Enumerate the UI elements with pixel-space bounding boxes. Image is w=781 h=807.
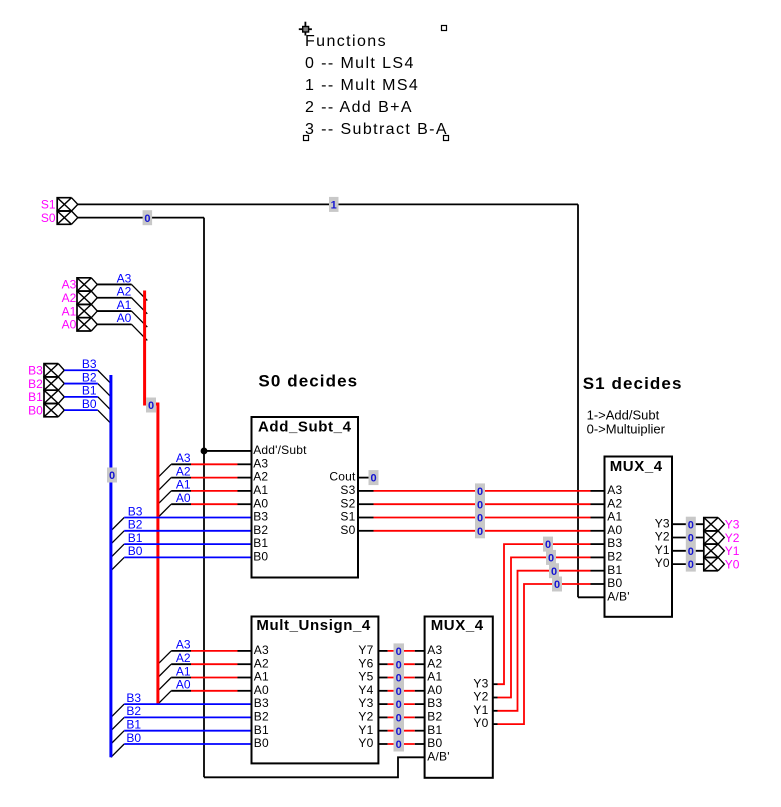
- svg-text:Y0: Y0: [725, 557, 740, 571]
- wire S0 net horizontal: [78, 217, 204, 219]
- output port Y0: [704, 557, 725, 570]
- wire A2 to multiplier: [171, 663, 251, 665]
- value label 0 on muxout B2 wire: [546, 550, 556, 565]
- wires multiplier Y7-Y0 to bottom MUX pins: [378, 651, 424, 744]
- selection handle top-right: [442, 26, 447, 31]
- annotation text Functions list: [305, 33, 448, 138]
- svg-text:S1: S1: [340, 510, 355, 524]
- svg-text:B3: B3: [427, 696, 442, 710]
- svg-text:Y1: Y1: [358, 723, 373, 737]
- svg-text:A1: A1: [176, 478, 191, 492]
- svg-text:B2: B2: [254, 710, 269, 724]
- svg-text:A0: A0: [62, 318, 77, 332]
- svg-text:A0: A0: [117, 311, 132, 325]
- svg-text:Y7: Y7: [358, 643, 373, 657]
- svg-text:Mult_Unsign_4: Mult_Unsign_4: [256, 617, 371, 634]
- svg-text:S0: S0: [41, 211, 56, 225]
- wire S1out to right MUX A1: [358, 517, 605, 519]
- svg-text:A0: A0: [607, 523, 622, 537]
- bus B blue segment: [109, 375, 112, 757]
- bus A red jog connector: [145, 403, 158, 406]
- svg-text:A2: A2: [176, 464, 191, 478]
- svg-text:Cout: Cout: [329, 470, 356, 484]
- value label 0 on muxout B0 wire: [552, 577, 562, 592]
- component Add_Subt_4: [252, 417, 359, 578]
- wire S1 net to A/B' pin of right MUX: [578, 596, 605, 598]
- svg-text:B3: B3: [126, 691, 141, 705]
- wire B3 port to bus: [64, 369, 98, 371]
- svg-text:B1: B1: [607, 563, 622, 577]
- svg-text:B1: B1: [82, 384, 97, 398]
- svg-text:Y3: Y3: [725, 518, 740, 532]
- wire S3 to right MUX A3: [358, 490, 605, 492]
- bus ripper A2 port: [132, 298, 148, 314]
- wire B0 to adder: [124, 556, 251, 558]
- bus ripper A0 adder: [158, 504, 171, 517]
- svg-text:0: 0: [396, 673, 402, 685]
- wire S1 net horizontal: [78, 203, 578, 205]
- bus ripper B1 port: [98, 397, 111, 410]
- crosshair cursor: [299, 22, 312, 36]
- wire A1 to multiplier: [171, 677, 251, 679]
- bus ripper A1 adder: [158, 491, 171, 504]
- svg-text:B0: B0: [253, 550, 268, 564]
- svg-text:0: 0: [148, 400, 154, 412]
- svg-text:0: 0: [688, 519, 694, 531]
- svg-text:S3: S3: [340, 483, 355, 497]
- svg-text:MUX_4: MUX_4: [610, 458, 663, 475]
- svg-text:Add_Subt_4: Add_Subt_4: [258, 419, 352, 436]
- svg-text:B2: B2: [607, 550, 622, 564]
- wire S2 to right MUX A2: [358, 503, 605, 505]
- svg-text:Y1: Y1: [655, 543, 670, 557]
- wire A1 to adder: [171, 490, 251, 492]
- wire mux Y2 to right MUX B2: [493, 557, 605, 697]
- svg-text:A2: A2: [427, 656, 442, 670]
- wire A1 port to bus: [97, 310, 131, 312]
- output port Y2: [704, 531, 725, 544]
- value label 0 on blue bus: [107, 468, 117, 483]
- bus ripper B0 multiplier: [111, 744, 124, 757]
- bus ripper A1 port: [132, 311, 148, 327]
- wire S0 net vertical: [203, 218, 205, 778]
- svg-text:1: 1: [331, 199, 337, 211]
- wire B0 to multiplier: [124, 743, 251, 745]
- svg-text:0: 0: [109, 470, 115, 482]
- svg-text:MUX_4: MUX_4: [431, 617, 484, 634]
- svg-text:0 -- Mult LS4: 0 -- Mult LS4: [305, 55, 415, 72]
- bus ripper B2 multiplier: [111, 717, 124, 730]
- svg-text:B2: B2: [82, 370, 97, 384]
- wire B3 to multiplier: [124, 703, 251, 705]
- svg-text:Y0: Y0: [473, 716, 488, 730]
- bus ripper B0 adder: [111, 557, 124, 570]
- svg-text:B3: B3: [254, 696, 269, 710]
- bus ripper B0 port: [98, 410, 111, 423]
- svg-text:0: 0: [551, 566, 557, 578]
- input port A1: [77, 304, 97, 317]
- wire B1 to multiplier: [124, 730, 251, 732]
- svg-text:Y4: Y4: [358, 683, 373, 697]
- wire A3 port to bus: [97, 283, 131, 285]
- svg-text:0: 0: [370, 473, 376, 485]
- component Mult_Unsign_4: [252, 617, 379, 764]
- svg-text:0: 0: [554, 579, 560, 591]
- svg-text:0: 0: [396, 739, 402, 751]
- wire S0 branch to Add'/Subt pin: [204, 450, 252, 452]
- svg-text:B0: B0: [254, 736, 269, 750]
- bus ripper B2 port: [98, 384, 111, 397]
- svg-text:0->Multuiplier: 0->Multuiplier: [587, 422, 666, 437]
- input port B1: [44, 390, 64, 403]
- input port B2: [44, 377, 64, 390]
- svg-text:A1: A1: [607, 510, 622, 524]
- svg-text:Y0: Y0: [655, 556, 670, 570]
- value label 0 on Cout: [369, 470, 379, 485]
- svg-text:B0: B0: [28, 403, 43, 417]
- input port S1: [57, 198, 78, 211]
- svg-text:0: 0: [477, 486, 483, 498]
- svg-text:A0: A0: [254, 683, 269, 697]
- svg-text:0: 0: [396, 659, 402, 671]
- svg-text:A1: A1: [253, 483, 268, 497]
- bus A red lower segment: [156, 403, 159, 705]
- svg-text:B0: B0: [607, 576, 622, 590]
- wire A2 port to bus: [97, 297, 131, 299]
- svg-text:A2: A2: [176, 651, 191, 665]
- input port A0: [77, 318, 97, 331]
- bus ripper A0 multiplier: [158, 691, 171, 704]
- bus ripper B2 adder: [111, 531, 124, 544]
- bus ripper A1 multiplier: [158, 678, 171, 691]
- svg-text:0: 0: [688, 533, 694, 545]
- wire A0 to adder: [171, 503, 251, 505]
- svg-text:Y6: Y6: [358, 656, 373, 670]
- svg-text:0: 0: [477, 499, 483, 511]
- output port Y3: [704, 518, 725, 531]
- wire mux Y1 to right MUX B1: [493, 571, 605, 711]
- component MUX_4 right: [605, 457, 673, 617]
- bus ripper B1 multiplier: [111, 731, 124, 744]
- value labels 0 on multiplier Y7-Y0 wires: [394, 643, 405, 751]
- svg-text:0: 0: [545, 539, 551, 551]
- input port B3: [44, 364, 64, 377]
- selection handle bottom-left: [304, 136, 309, 141]
- wire A2 to adder: [171, 477, 251, 479]
- svg-text:B0: B0: [82, 397, 97, 411]
- wire B2 to adder: [124, 530, 251, 532]
- output port Y1: [704, 544, 725, 557]
- svg-text:Y2: Y2: [725, 531, 740, 545]
- svg-text:B1: B1: [427, 723, 442, 737]
- wire B0 port to bus: [64, 409, 98, 411]
- svg-text:0: 0: [396, 686, 402, 698]
- svg-text:A/B': A/B': [427, 749, 449, 763]
- svg-text:1->Add/Subt: 1->Add/Subt: [587, 408, 660, 423]
- svg-text:Y3: Y3: [358, 696, 373, 710]
- bus ripper B1 adder: [111, 544, 124, 557]
- svg-text:Y2: Y2: [473, 690, 488, 704]
- wire A0 to multiplier: [171, 690, 251, 692]
- wire B2 port to bus: [64, 383, 98, 385]
- svg-text:B0: B0: [128, 544, 143, 558]
- value label 0 on red bus: [146, 398, 156, 413]
- svg-text:Functions: Functions: [305, 33, 387, 50]
- wire S0out to right MUX A0: [358, 530, 605, 532]
- svg-text:A1: A1: [62, 304, 77, 318]
- svg-text:B2: B2: [427, 710, 442, 724]
- value labels 0 on S3-S0 wires: [475, 483, 485, 538]
- svg-text:0: 0: [396, 726, 402, 738]
- svg-text:A0: A0: [253, 496, 268, 510]
- svg-text:B1: B1: [28, 390, 43, 404]
- junction node on S0 net: [201, 448, 208, 455]
- svg-text:0: 0: [396, 699, 402, 711]
- bus ripper B3 multiplier: [111, 704, 124, 717]
- wire B3 to adder: [124, 517, 251, 519]
- wire A0 port to bus: [97, 323, 131, 325]
- bus ripper A0 port: [132, 324, 148, 340]
- svg-text:S0 decides: S0 decides: [258, 372, 358, 391]
- svg-text:A1: A1: [117, 298, 132, 312]
- svg-text:B1: B1: [254, 723, 269, 737]
- value label 1 on S1 net: [329, 197, 339, 212]
- svg-text:B3: B3: [253, 510, 268, 524]
- svg-text:B3: B3: [28, 364, 43, 378]
- bus ripper B3 adder: [111, 518, 124, 531]
- svg-text:A3: A3: [62, 278, 77, 292]
- svg-text:0: 0: [548, 553, 554, 565]
- svg-text:A1: A1: [176, 664, 191, 678]
- wire mux Y3 to right MUX B3: [493, 544, 605, 684]
- svg-text:B2: B2: [126, 704, 141, 718]
- svg-text:A0: A0: [176, 678, 191, 692]
- svg-text:A1: A1: [254, 670, 269, 684]
- svg-text:A2: A2: [253, 470, 268, 484]
- bus ripper A3 multiplier: [158, 651, 171, 664]
- bus ripper A3 adder: [158, 464, 171, 477]
- svg-text:S1: S1: [41, 198, 56, 212]
- svg-text:A3: A3: [176, 451, 191, 465]
- svg-text:B3: B3: [607, 536, 622, 550]
- wire B1 port to bus: [64, 396, 98, 398]
- svg-text:A3: A3: [253, 456, 268, 470]
- svg-text:A1: A1: [427, 670, 442, 684]
- svg-text:A3: A3: [607, 483, 622, 497]
- svg-text:0: 0: [688, 559, 694, 571]
- svg-text:0: 0: [144, 213, 150, 225]
- svg-text:A0: A0: [176, 491, 191, 505]
- svg-text:A3: A3: [254, 643, 269, 657]
- wire A3 to multiplier: [171, 650, 251, 652]
- wire B1 to adder: [124, 543, 251, 545]
- svg-text:B3: B3: [128, 504, 143, 518]
- svg-text:0: 0: [477, 526, 483, 538]
- svg-text:2 -- Add B+A: 2 -- Add B+A: [305, 99, 413, 116]
- svg-text:A3: A3: [176, 638, 191, 652]
- svg-text:Y1: Y1: [725, 544, 740, 558]
- svg-text:B2: B2: [28, 377, 43, 391]
- svg-text:Y5: Y5: [358, 670, 373, 684]
- svg-text:Y0: Y0: [358, 736, 373, 750]
- value labels 0 on right MUX Y3-Y0 wires: [686, 517, 696, 572]
- value label 0 on S0 net: [143, 210, 153, 225]
- input port S0: [57, 211, 78, 224]
- value label 0 on muxout B1 wire: [549, 563, 559, 578]
- value label 0 on muxout B3 wire: [543, 537, 553, 552]
- svg-text:Y2: Y2: [358, 710, 373, 724]
- svg-text:B2: B2: [128, 518, 143, 532]
- svg-text:B0: B0: [427, 736, 442, 750]
- component MUX_4 lower: [425, 617, 493, 778]
- svg-text:Y3: Y3: [655, 516, 670, 530]
- bus A red upper segment: [143, 291, 146, 406]
- svg-text:A2: A2: [62, 291, 77, 305]
- svg-text:B2: B2: [253, 523, 268, 537]
- svg-text:S0: S0: [340, 523, 355, 537]
- bus ripper A2 multiplier: [158, 664, 171, 677]
- svg-text:B0: B0: [126, 731, 141, 745]
- svg-text:A3: A3: [427, 643, 442, 657]
- wire B2 to multiplier: [124, 716, 251, 718]
- input port A2: [77, 291, 97, 304]
- wire S1 net vertical: [577, 204, 579, 597]
- bus ripper A3 port: [132, 284, 148, 300]
- svg-text:Y1: Y1: [473, 703, 488, 717]
- svg-text:A2: A2: [254, 656, 269, 670]
- svg-text:A2: A2: [117, 285, 132, 299]
- svg-text:Y2: Y2: [655, 530, 670, 544]
- svg-text:1 -- Mult MS4: 1 -- Mult MS4: [305, 77, 419, 94]
- wire A3 to adder: [171, 463, 251, 465]
- wires right MUX Y3-Y0 to output ports: [672, 524, 704, 564]
- svg-text:0: 0: [477, 513, 483, 525]
- svg-text:B1: B1: [126, 718, 141, 732]
- svg-text:B1: B1: [253, 536, 268, 550]
- svg-text:Y3: Y3: [473, 676, 488, 690]
- input port B0: [44, 404, 64, 417]
- svg-text:A3: A3: [117, 271, 132, 285]
- svg-text:A0: A0: [427, 683, 442, 697]
- wire mux Y0 to right MUX B0: [493, 584, 605, 724]
- svg-text:A2: A2: [607, 496, 622, 510]
- wire S0 net bottom run: [204, 757, 425, 777]
- wire Cout stub: [358, 477, 369, 479]
- svg-text:Add'/Subt: Add'/Subt: [253, 443, 307, 457]
- svg-text:0: 0: [396, 646, 402, 658]
- svg-text:A/B': A/B': [607, 589, 629, 603]
- selection handle bottom-right: [444, 136, 449, 141]
- bus ripper B3 port: [98, 370, 111, 383]
- input port A3: [77, 278, 97, 291]
- svg-text:S2: S2: [340, 496, 355, 510]
- svg-text:B3: B3: [82, 357, 97, 371]
- svg-text:S1 decides: S1 decides: [583, 374, 683, 393]
- svg-text:0: 0: [396, 713, 402, 725]
- svg-text:0: 0: [688, 546, 694, 558]
- svg-text:B1: B1: [128, 531, 143, 545]
- bus ripper A2 adder: [158, 478, 171, 491]
- svg-text:3 -- Subtract B-A: 3 -- Subtract B-A: [305, 121, 448, 138]
